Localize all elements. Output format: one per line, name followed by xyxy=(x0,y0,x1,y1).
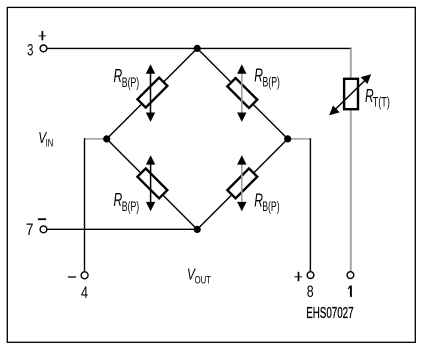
wire bridge arm top-right xyxy=(197,48,288,138)
svg-text:B(P): B(P) xyxy=(122,75,139,90)
arrow top-left (pressure) xyxy=(146,64,155,122)
label R_T(T) xyxy=(365,86,390,110)
wire vertical to terminal 4 xyxy=(84,138,86,272)
wire grey vertical drop to R_T(T) and terminal 1 xyxy=(350,48,352,271)
svg-text:EHS07027: EHS07027 xyxy=(306,305,353,322)
svg-text:8: 8 xyxy=(307,283,314,301)
terminal 1 xyxy=(347,272,354,279)
terminal 8 xyxy=(307,272,314,279)
wire bridge arm bottom-left xyxy=(107,139,198,230)
wire vertical to terminal 8 xyxy=(309,138,311,272)
arrow bottom-left (pressure) xyxy=(146,155,155,211)
svg-text:7: 7 xyxy=(26,221,34,239)
label + at terminal 3 xyxy=(39,31,46,41)
label + at terminal 8 xyxy=(294,272,302,281)
wire top rail from terminal 3 to right corner xyxy=(47,47,352,49)
label 1 xyxy=(348,286,351,297)
label - at terminal 4 xyxy=(68,276,76,278)
label R_B(P) top-right xyxy=(254,66,280,90)
arrow R_T(T) diagonal xyxy=(329,74,371,115)
wire from terminal 7 to bottom node xyxy=(47,228,197,230)
wire bridge arm top-left xyxy=(107,48,198,138)
svg-text:B(P): B(P) xyxy=(263,75,280,90)
terminal 4 xyxy=(81,272,88,279)
resistor R_B(P) top-right xyxy=(227,78,257,108)
svg-text:4: 4 xyxy=(81,284,88,302)
svg-text:IN: IN xyxy=(46,138,54,150)
label R_B(P) bottom-left xyxy=(114,190,140,214)
label - at terminal 7 xyxy=(38,218,46,220)
svg-text:OUT: OUT xyxy=(195,275,212,287)
node bottom junction xyxy=(194,226,201,233)
resistor R_B(P) top-left xyxy=(137,78,167,108)
svg-text:T(T): T(T) xyxy=(373,95,390,110)
svg-text:3: 3 xyxy=(27,41,33,59)
label R_B(P) bottom-right xyxy=(254,190,279,214)
resistor R_B(P) bottom-left xyxy=(137,168,167,198)
label V_OUT xyxy=(187,267,211,287)
label V_IN xyxy=(38,130,53,149)
node top junction xyxy=(194,45,201,52)
terminal 7 xyxy=(40,226,47,233)
svg-text:B(P): B(P) xyxy=(122,199,139,214)
arrow bottom-right (pressure) xyxy=(237,155,246,211)
wire bridge arm bottom-right xyxy=(197,139,288,230)
resistor R_B(P) bottom-right xyxy=(227,168,257,198)
wire grey stub right node xyxy=(288,138,311,140)
label R_B(P) top-left xyxy=(114,66,140,90)
node right junction xyxy=(284,135,291,142)
thermistor R_T(T) xyxy=(344,79,358,109)
arrow top-right (pressure) xyxy=(237,64,246,122)
node left junction xyxy=(103,135,110,142)
wire grey stub left node xyxy=(85,138,107,140)
terminal 3 xyxy=(40,45,47,52)
svg-text:B(P): B(P) xyxy=(262,199,279,214)
